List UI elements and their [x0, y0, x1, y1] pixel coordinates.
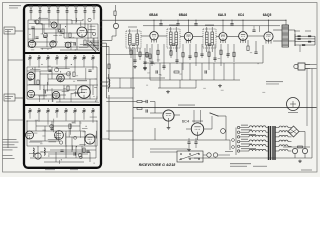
- svg-text:6BA6: 6BA6: [179, 13, 188, 17]
- svg-text:RICEVITORE G 4/218: RICEVITORE G 4/218: [139, 163, 176, 167]
- svg-text:6BA6: 6BA6: [149, 13, 158, 17]
- svg-text:6AL5: 6AL5: [218, 13, 226, 17]
- svg-text:6C4: 6C4: [238, 13, 244, 17]
- svg-text:6AQ5: 6AQ5: [263, 13, 272, 17]
- svg-text:6C4: 6C4: [182, 119, 190, 124]
